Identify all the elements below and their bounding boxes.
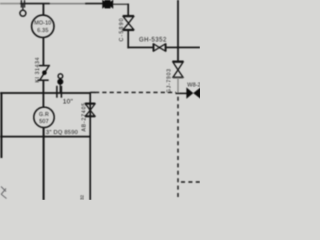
node: corner at (90,92) (90, 91, 95, 93)
valve GJ-7903 (172, 60, 183, 62)
wire: right vertical pipe x=178 (177, 0, 179, 61)
wire: dashed horizontal y=182 (181, 181, 200, 183)
svg-text:3" DQ 8590: 3" DQ 8590 (46, 130, 78, 136)
svg-text:MO-10: MO-10 (34, 21, 51, 27)
orifice plate with seal pots (56, 86, 58, 98)
wire: dashed vertical x=178 (177, 97, 179, 199)
wire (166, 46, 200, 48)
wire: horizontal pipe y=93 (0, 92, 91, 94)
valve AB-27405 (85, 102, 95, 104)
wire: top horizontal pipe y=4 (0, 3, 21, 5)
valve V1 (solid, on top pipe) (102, 0, 113, 9)
wire: gray stub below valve (177, 78, 179, 94)
wire (127, 30, 129, 48)
svg-text:G.R: G.R (39, 112, 49, 118)
svg-text:10": 10" (63, 99, 74, 106)
wire (42, 80, 44, 107)
svg-text:GJ-7903: GJ-7903 (166, 68, 172, 93)
vent circle (20, 10, 26, 16)
instrument bubble G.R 507 (34, 107, 54, 127)
svg-text:507: 507 (39, 119, 49, 125)
wire: left vertical pipe to bottom (43, 127, 45, 200)
svg-text:C-5890: C-5890 (119, 17, 125, 41)
node: handwritten mark bottom-left (1, 187, 7, 199)
wire (42, 37, 44, 65)
wire: lower horizontal pipe y=136.5 (0, 136, 91, 138)
wire: vertical pipe x=90 (89, 92, 91, 200)
wire: dashed instrument line y=92.5 (95, 91, 176, 93)
wire: main left vertical pipe x=43.5 (42, 4, 44, 16)
slide valve KI 31434 (39, 65, 50, 67)
instrument bubble MO-10 (32, 15, 54, 37)
wire: stem to small vent circle (22, 4, 24, 10)
valve C-5890 (123, 15, 134, 17)
svg-text:W8-2: W8-2 (187, 83, 200, 89)
svg-text:AB-27405: AB-27405 (82, 102, 88, 131)
svg-text:32: 32 (80, 194, 85, 200)
svg-text:KI 31434: KI 31434 (35, 57, 41, 83)
wire: left edge vertical pipe (0, 92, 2, 158)
break ticks on top pipe (20, 0, 22, 8)
wire: horizontal pipe y=47.5 (127, 46, 153, 48)
svg-text:GH-5352: GH-5352 (139, 37, 167, 43)
wire: solid stub to edge valve (176, 92, 189, 94)
svg-text:6.35: 6.35 (37, 28, 48, 34)
wire: right branch vertical x=128 (127, 4, 129, 16)
